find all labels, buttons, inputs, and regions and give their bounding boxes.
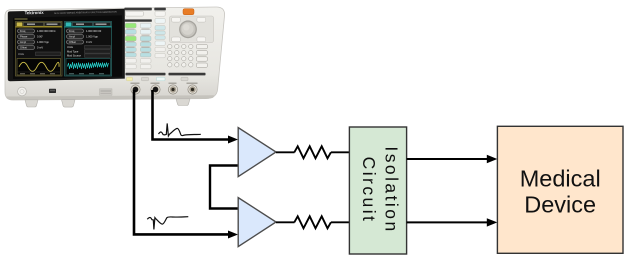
power button [18,87,27,96]
svg-text:Ampl: Ampl [20,40,26,44]
resistor R2 [294,216,331,228]
svg-text:0 mV: 0 mV [37,46,43,50]
BNC labels [131,83,198,84]
instrument foot 3 [176,99,190,106]
svg-text:Units: Units [18,52,25,56]
instrument foot 2 [62,100,76,107]
bracket wire joining A1 inverting input to A2 non-inverting input [210,166,238,209]
CH1 waveform sine [17,59,61,76]
svg-text:Offset: Offset [69,40,76,44]
svg-text:Units: Units [67,45,74,49]
BNC aux 1 [168,85,177,94]
isolation circuit block [349,127,406,254]
keypad side pills [196,44,207,67]
display [13,15,122,79]
svg-text:1.000 Vpp: 1.000 Vpp [37,40,49,44]
BNC CH1 [131,85,140,94]
output section header bars [126,73,166,76]
svg-text:Mod Type: Mod Type [67,49,79,53]
channel buttons [127,77,133,81]
BNC aux 2 [188,85,197,94]
wire A1 output [276,151,295,153]
wire R2 to isolation circuit [331,221,350,223]
wire isolation to medical device (top) [407,158,488,160]
svg-text:Medical: Medical [520,166,601,192]
ECG waveform annotation (top) [159,123,201,136]
svg-text:1.000 000 000 k: 1.000 000 000 k [37,29,56,33]
wire CH2 cable to buffer input [153,90,229,140]
CH1 panel [16,22,63,77]
vent grille [100,89,113,95]
wire A2 output [276,221,295,223]
svg-text:1.000 Vpp: 1.000 Vpp [86,35,98,39]
svg-text:Phase: Phase [20,35,28,39]
instrument foot 1 [25,100,38,107]
arrowhead into medical device (top) [487,155,498,163]
keypad [168,44,193,67]
screen top-left tiny label [15,18,28,19]
medical device block [497,126,623,253]
svg-text:Tektronix: Tektronix [25,10,45,15]
svg-text:Device: Device [524,192,596,218]
svg-text:Ampl: Ampl [69,35,75,39]
svg-text:0.00°: 0.00° [37,35,43,39]
control panel column 1 [124,8,151,69]
svg-text:Freq: Freq [20,29,26,33]
knob [179,20,197,38]
BNC CH2 [151,85,160,94]
CH2 waveform noise [66,59,111,76]
CH2 panel [65,22,112,77]
inverted ECG waveform annotation (bottom) [147,217,188,230]
screen bezel [8,9,125,82]
svg-text:Offset: Offset [20,46,27,50]
wire CH1 cable to inverting buffer input [134,90,229,234]
function generator AFG31000 [5,7,225,107]
orange button [183,9,194,15]
op-amp buffer A2 (bottom) [238,198,276,247]
knob plate [170,16,214,43]
op-amp buffer A1 (top) [238,128,276,177]
svg-text:0 mV: 0 mV [86,40,92,44]
arrowhead into op-amp A2 [228,231,238,239]
arrowhead into op-amp A1 [228,136,238,144]
wire isolation to medical device (bottom) [407,221,488,223]
svg-text:Freq: Freq [69,29,75,33]
svg-text:Mod Source: Mod Source [67,54,82,58]
svg-text:1.000 000 00: 1.000 000 00 [86,29,102,33]
plate corner buttons [172,17,206,41]
arrowhead into medical device (bottom) [487,218,498,226]
instrument body [5,7,225,100]
usb port [49,89,56,93]
wire R1 to isolation circuit [331,151,350,153]
control panel column 2 [154,8,166,58]
resistor R1 [294,146,331,158]
